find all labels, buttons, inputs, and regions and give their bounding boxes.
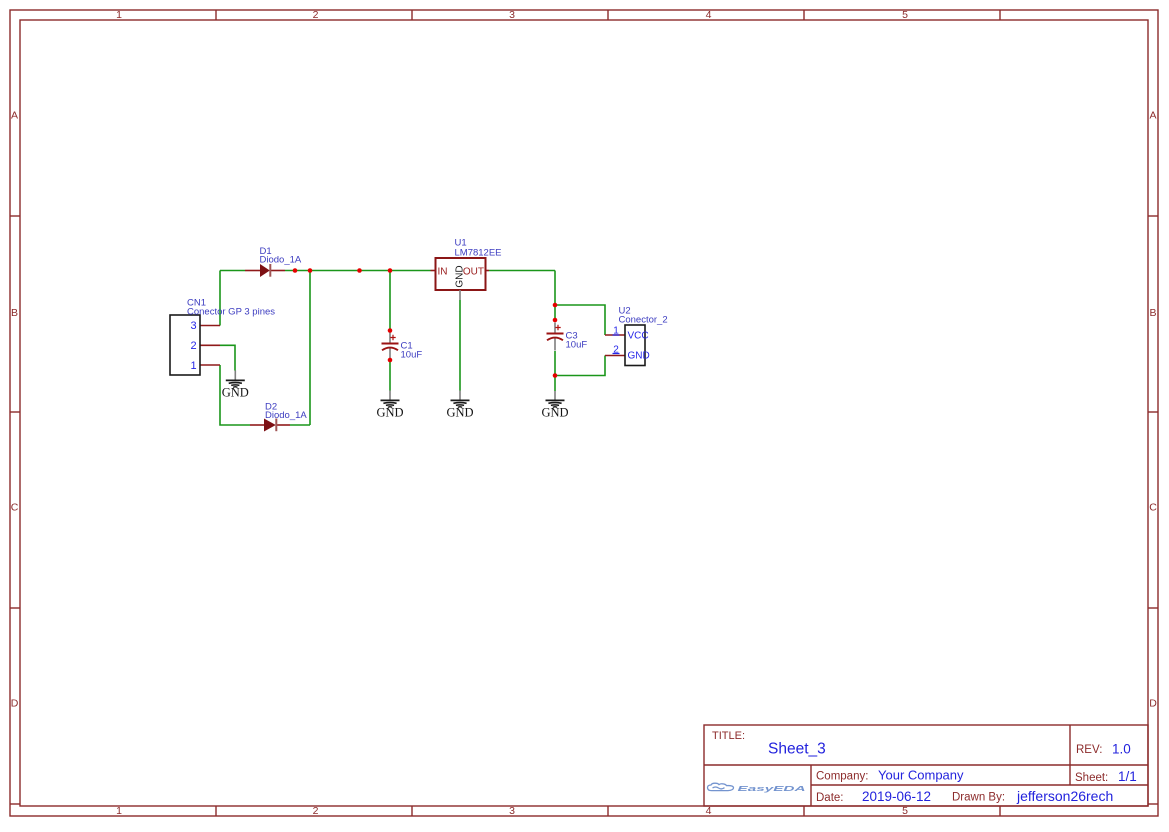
svg-text:3: 3 <box>509 805 515 817</box>
svg-text:GND: GND <box>455 265 466 287</box>
svg-text:GND: GND <box>446 405 473 419</box>
svg-text:10uF: 10uF <box>401 350 423 361</box>
svg-text:3: 3 <box>509 9 515 21</box>
svg-text:Conector GP 3 pines: Conector GP 3 pines <box>187 307 275 318</box>
svg-text:B: B <box>1149 307 1156 319</box>
svg-text:Diodo_1A: Diodo_1A <box>265 410 307 421</box>
svg-text:1: 1 <box>116 9 122 21</box>
svg-text:1.0: 1.0 <box>1112 742 1131 757</box>
svg-text:C: C <box>11 502 19 514</box>
svg-text:D: D <box>11 698 19 710</box>
svg-text:GND: GND <box>222 385 249 399</box>
svg-text:2019-06-12: 2019-06-12 <box>862 789 931 804</box>
svg-text:LM7812EE: LM7812EE <box>455 248 502 259</box>
svg-text:Sheet:: Sheet: <box>1075 772 1108 784</box>
svg-text:Company:: Company: <box>816 771 868 783</box>
svg-text:EasyEDA: EasyEDA <box>738 784 806 793</box>
svg-text:A: A <box>1149 110 1156 122</box>
svg-text:GND: GND <box>628 351 650 362</box>
svg-text:Date:: Date: <box>816 792 844 804</box>
svg-text:GND: GND <box>376 405 403 419</box>
svg-text:C: C <box>1149 502 1157 514</box>
svg-text:OUT: OUT <box>463 267 484 278</box>
svg-text:Your Company: Your Company <box>878 768 964 783</box>
svg-text:1/1: 1/1 <box>1118 769 1137 784</box>
svg-text:1: 1 <box>116 805 122 817</box>
svg-text:REV:: REV: <box>1076 744 1102 756</box>
svg-text:IN: IN <box>438 267 448 278</box>
svg-text:GND: GND <box>541 405 568 419</box>
svg-text:3: 3 <box>190 320 196 332</box>
svg-text:5: 5 <box>902 805 908 817</box>
svg-text:2: 2 <box>313 805 319 817</box>
svg-text:Conector_2: Conector_2 <box>619 315 668 326</box>
svg-text:10uF: 10uF <box>566 340 588 351</box>
svg-text:2: 2 <box>313 9 319 21</box>
svg-text:D: D <box>1149 698 1157 710</box>
svg-text:5: 5 <box>902 9 908 21</box>
svg-text:A: A <box>11 110 18 122</box>
svg-text:Sheet_3: Sheet_3 <box>768 741 826 758</box>
svg-text:Drawn By:: Drawn By: <box>952 792 1005 804</box>
svg-text:jefferson26rech: jefferson26rech <box>1016 788 1113 804</box>
svg-text:1: 1 <box>190 360 196 372</box>
svg-text:4: 4 <box>706 805 712 817</box>
svg-text:TITLE:: TITLE: <box>712 730 745 742</box>
svg-text:2: 2 <box>190 340 196 352</box>
svg-text:4: 4 <box>706 9 712 21</box>
svg-text:VCC: VCC <box>628 331 649 342</box>
svg-text:Diodo_1A: Diodo_1A <box>260 255 302 266</box>
svg-text:B: B <box>11 307 18 319</box>
